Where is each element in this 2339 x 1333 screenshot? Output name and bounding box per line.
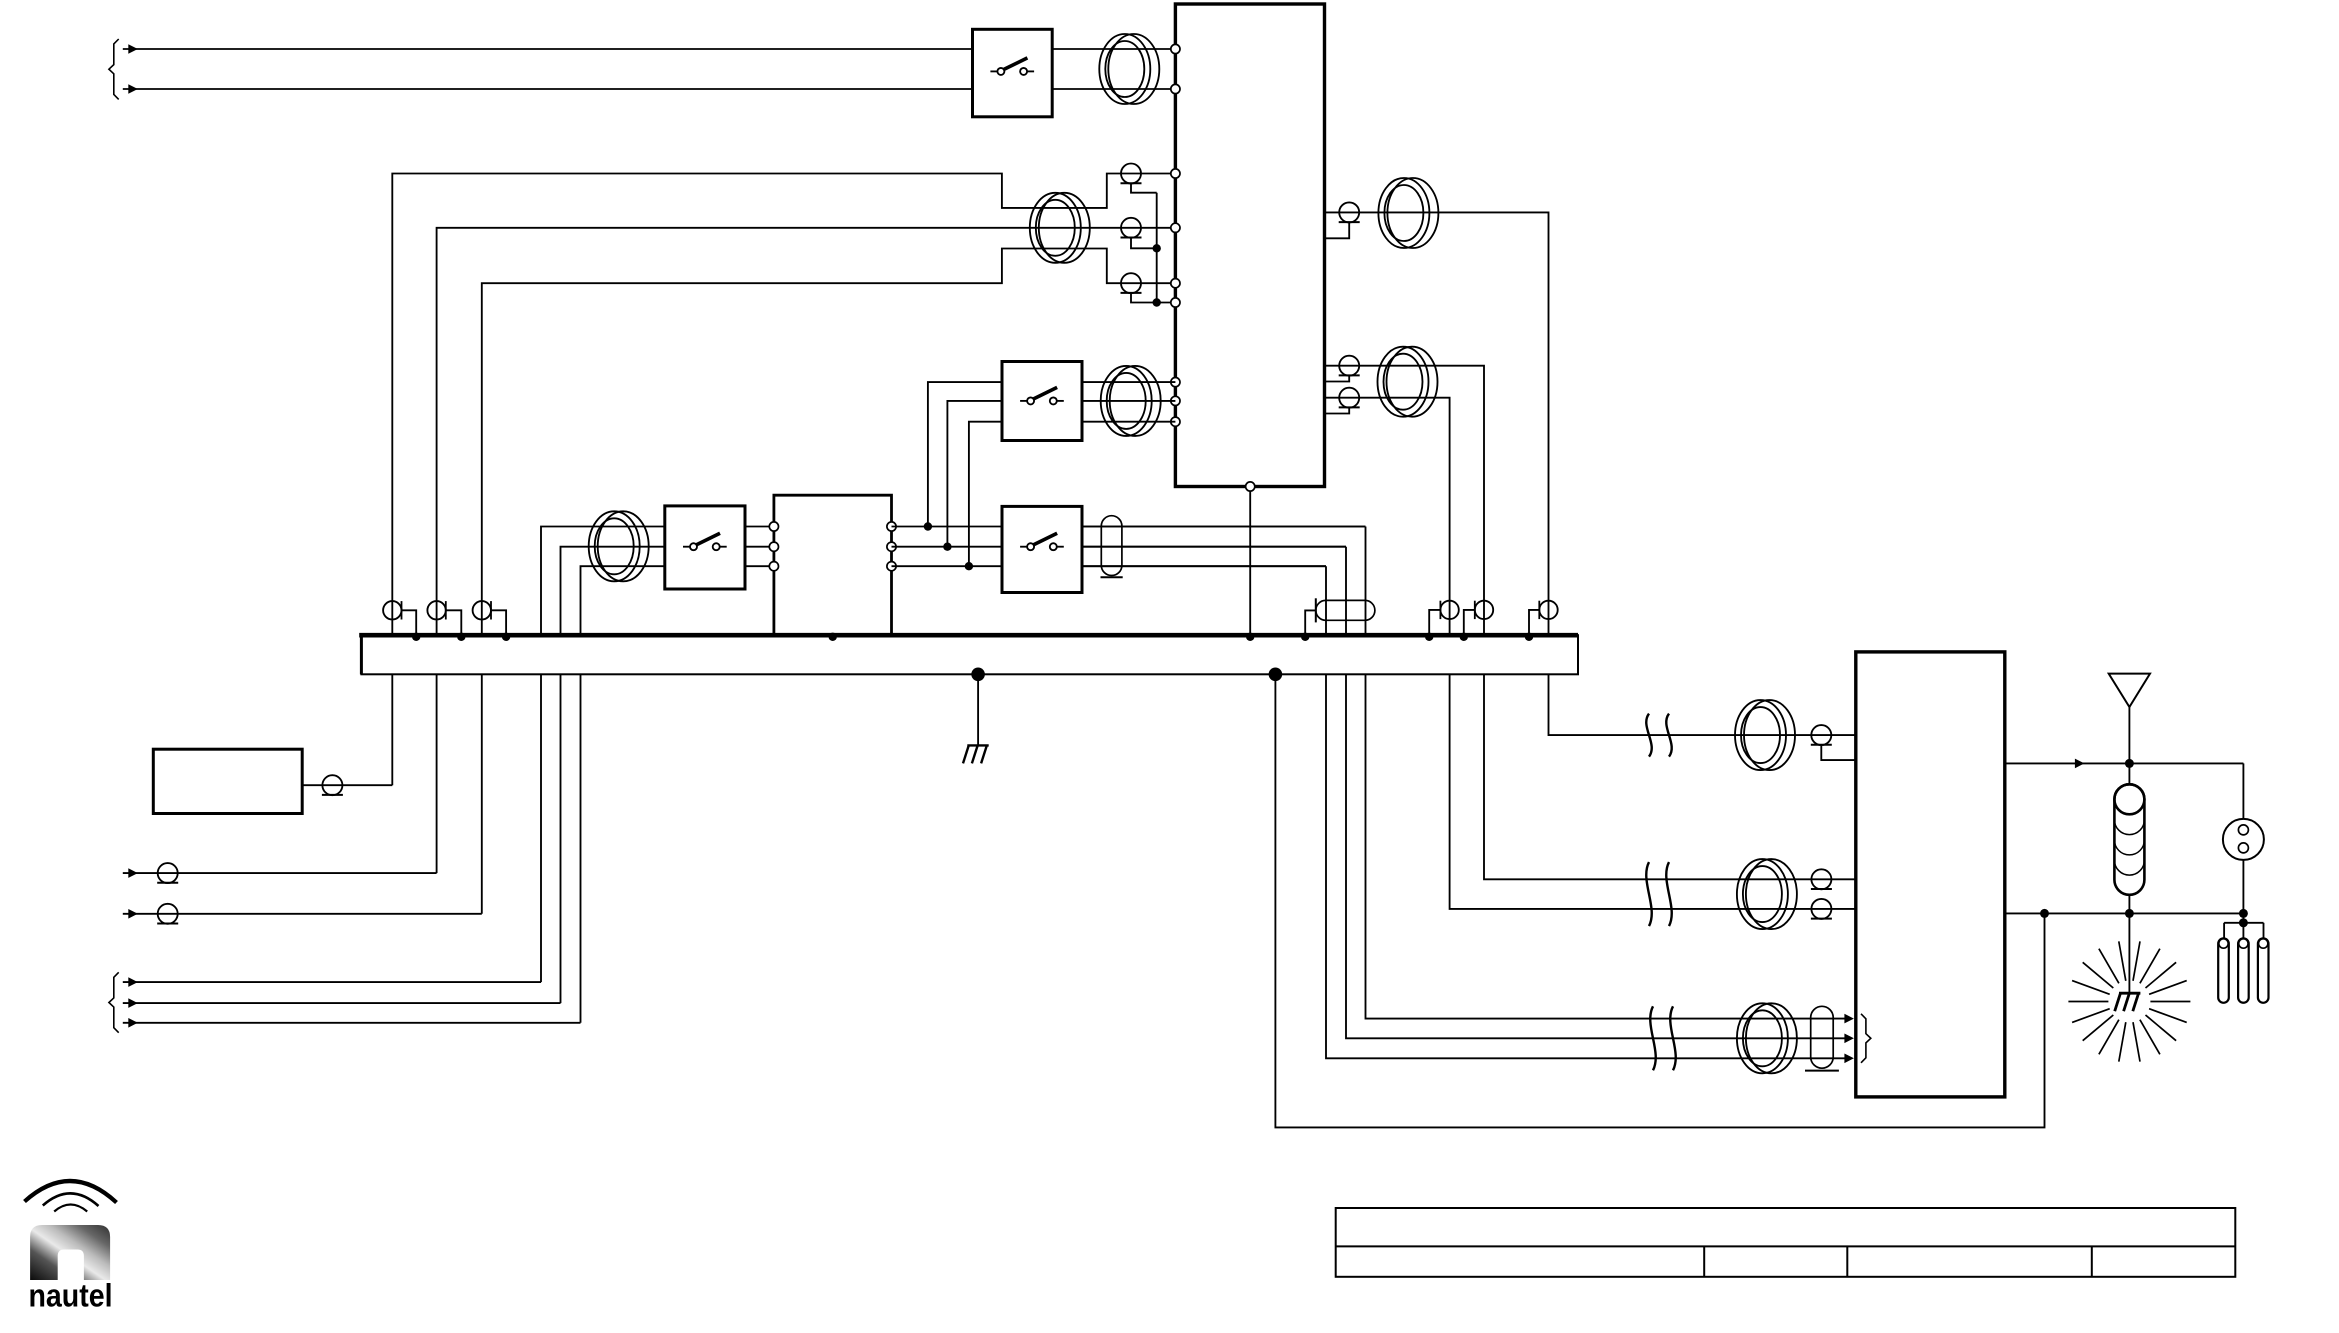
spark gap flashover [2115,993,2141,1011]
bushing E11 [1464,601,1493,636]
junction bus-return [1269,668,1283,682]
junction riser A [924,522,932,530]
wire S4 out A [1082,526,1366,528]
junction return-row [2040,909,2049,918]
toroid L7 [1735,700,1795,770]
wire bus return drop [1275,674,2044,1127]
junction coil-row [2125,909,2134,918]
wire riser C [969,422,1002,567]
toroid L1 [1099,34,1159,104]
block U1 RF power module [1175,4,1324,487]
wire row2 [437,228,1176,873]
junction tube bus [2239,918,2248,927]
junction E8-bus [457,633,465,641]
terminals T1 right [887,522,896,571]
wire S3 out C [1082,421,1175,423]
ground bus [359,634,1578,674]
arrowhead aux 1 [128,868,138,878]
wire row1 to exciter vertical [392,174,1175,786]
bushing E10 [1429,601,1459,636]
brace input pair TB1 [109,39,119,99]
feedthrough E15 [157,904,178,924]
cable break row C [1650,1006,1675,1070]
junction meter-row [2239,909,2248,918]
wire FL2 ground lead [1305,610,1316,635]
wire S4 out B [1082,546,1346,548]
wire S2-T1 B [745,546,774,548]
wire row3 [482,249,1176,914]
arrowhead feeder C1 [1844,1014,1854,1024]
wire tube feed [2242,913,2244,922]
contactor S1 [973,29,1053,117]
arrowhead ac 1 [128,977,138,987]
wire U2 to antenna [2005,762,2244,764]
wire U1 out top [1325,212,1856,735]
wire secondary C [892,565,1327,567]
toroid L9 [1737,1003,1797,1073]
ferrite sleeve FL1 [1101,516,1123,578]
junction E10-bus [1425,633,1433,641]
junction shield-E2 [1153,244,1161,252]
wire U1 out mid [1325,366,1856,880]
junction E12-bus [1525,633,1533,641]
junction antenna node [2125,759,2134,768]
arrowhead input 1 [128,44,138,54]
feedthrough E1 [1121,164,1157,193]
wire S1 out B [1052,88,1175,90]
wire U1 bottom drop [1249,491,1251,635]
arrowhead input 2 [128,84,138,94]
wire exciter out [302,784,392,786]
ferrite sleeve FL2 [1316,598,1375,622]
feedthrough E3 [1121,273,1157,302]
toroid L2 [1030,193,1090,263]
gas arrester tube V2 [2238,938,2249,1002]
feedthrough E13 [322,775,343,795]
antenna symbol [2109,674,2150,764]
toroid L3 [589,511,649,581]
toroid L6 [1378,347,1438,417]
wire riser B [947,401,1002,547]
cable break row B [1646,862,1671,926]
gas arrester tube V1 [2218,938,2229,1003]
toroid L4 [1101,366,1161,436]
junction bus-ground [971,668,985,682]
transformer T1 [774,495,892,635]
wire ac input 3 [123,1022,581,1024]
wire S4 drop C [1326,566,1846,1058]
feedthrough E2 [1121,218,1157,249]
nautel logo [25,1181,117,1314]
gap monitor M1 [2223,819,2264,860]
contactor S3 [1002,362,1082,441]
terminals T1 left [769,522,778,571]
block U2 antenna coupler [1856,652,2005,1097]
title block [1336,1208,2236,1277]
feedthrough E4 [1325,202,1360,238]
wire RF input 1 [123,48,973,50]
wire secondary B [892,546,1347,548]
wire riser A [928,382,1002,526]
wire RF input 2 [123,88,973,90]
wire S4 drop A [1366,527,1846,1019]
terminal U1 bottom [1246,482,1255,491]
cable break row A [1646,714,1671,757]
junction riser C [965,562,973,570]
wire S1 out A [1052,48,1175,50]
arrowhead feeder C2 [1844,1034,1854,1044]
junction FL2-bus [1301,633,1309,641]
junction E11-bus [1460,633,1468,641]
wire S2-T1 A [745,526,774,528]
junction U1 drop-bus [1246,633,1254,641]
bushing E12 [1529,601,1558,636]
terminals U1 left [1171,44,1180,426]
arrowhead ac 3 [128,1018,138,1028]
feedthrough E14 [157,863,178,883]
toroid L8 [1737,859,1797,929]
wire meter down [2242,860,2244,914]
arrowhead feeder C3 [1844,1054,1854,1064]
wire S4 out C [1082,565,1326,567]
feedthrough E16 [1811,725,1856,760]
toroid L5 [1378,178,1438,248]
contactor S4 [1002,506,1082,592]
arrowhead ac 2 [128,998,138,1008]
junction E7-bus [412,633,420,641]
junction T1 centre tap [829,633,837,641]
wire secondary A [892,526,1366,528]
wire tube mini-bus [2224,923,2263,939]
spark rays [2068,941,2190,1061]
ferrite sleeve FL3 [1805,1006,1839,1070]
inductor L10 loading coil [2114,763,2144,913]
wire coil to spark gap [2128,913,2130,992]
junction shield-E3 [1153,298,1161,306]
brace feeder bundle TB3 [1861,1014,1871,1063]
junction E9-bus [502,633,510,641]
wire shield common [1157,193,1176,303]
contactor S2 [665,506,745,589]
wire S4 drop B [1346,547,1846,1039]
wire station ground drop [977,674,979,745]
ground symbol station [963,745,989,763]
wire ac input 2 [123,1002,561,1004]
wire U1 out low [1325,398,1856,909]
wire primary B [561,547,665,1003]
wire S3 out B [1082,400,1175,402]
bushing E9 [473,601,507,635]
junction riser B [943,543,951,551]
arrowhead antenna feed [2075,759,2085,769]
wire antenna to meter [2242,763,2244,819]
feedthrough E18 [1811,899,1832,919]
wire aux input 1 [123,872,437,874]
exciter A1 [153,749,302,813]
wire U2 ground row [2005,912,2244,914]
gas arrester tube V3 [2258,938,2269,1003]
bushing E7 [383,601,416,635]
feedthrough E5 [1325,356,1360,382]
feedthrough E17 [1811,869,1832,889]
wire ac input 1 [123,981,541,983]
arrowhead aux 2 [128,909,138,919]
wire S3 out A [1082,381,1175,383]
feedthrough E6 [1325,388,1360,414]
bushing E8 [427,601,461,635]
svg-text:nautel: nautel [29,1278,113,1314]
wire aux input 2 [123,913,482,915]
wire primary A [541,527,665,983]
wire primary C [581,566,665,1023]
wire S2-T1 C [745,565,774,567]
brace input bundle TB2 [109,972,119,1032]
